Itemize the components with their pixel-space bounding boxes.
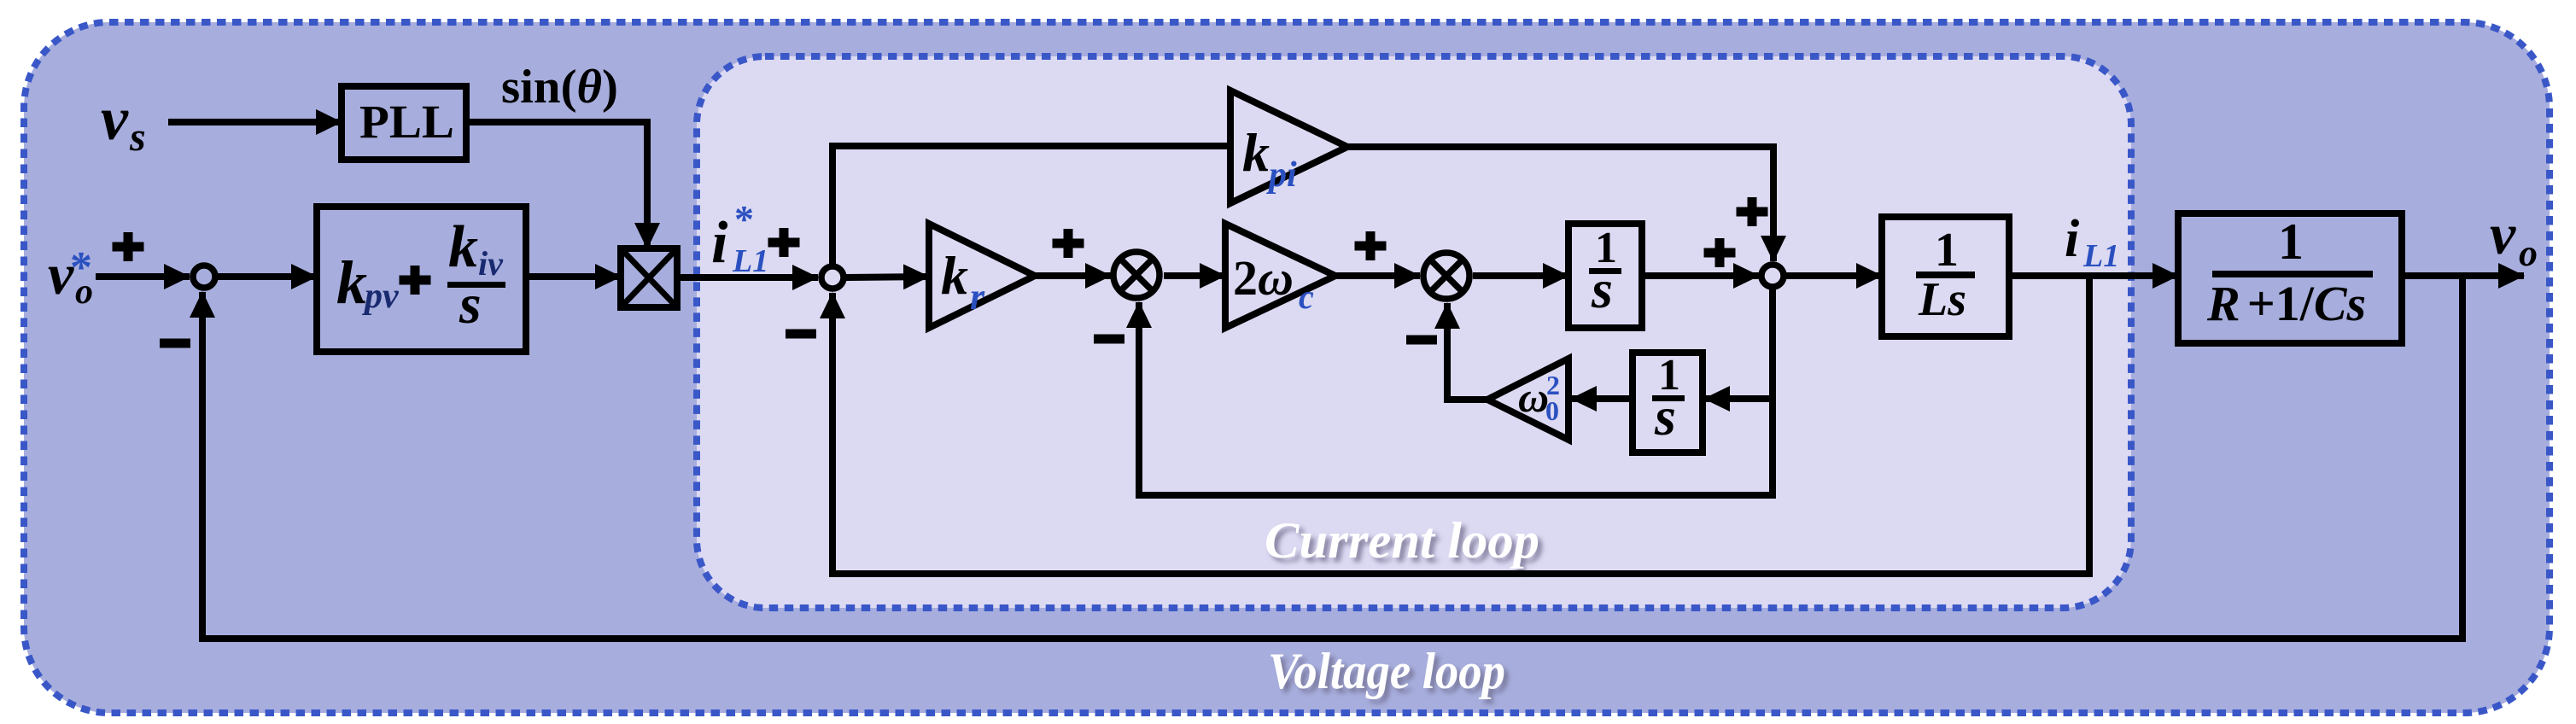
- svg-text:i: i: [2065, 210, 2079, 268]
- svg-text:k: k: [448, 214, 478, 280]
- svg-text:v: v: [2490, 201, 2516, 266]
- svg-text:o: o: [2519, 232, 2538, 274]
- svg-text:L1: L1: [2082, 238, 2119, 274]
- svg-text:ω: ω: [1518, 373, 1549, 421]
- svg-text:2ω: 2ω: [1233, 250, 1294, 306]
- svg-text:R+1/Cs: R+1/Cs: [2206, 276, 2366, 331]
- svg-text:i: i: [711, 210, 728, 276]
- svg-text:k: k: [336, 248, 367, 317]
- svg-text:PLL: PLL: [359, 96, 454, 148]
- svg-text:0: 0: [1545, 395, 1559, 426]
- svg-text:k: k: [1242, 122, 1270, 183]
- svg-text:k: k: [941, 245, 968, 306]
- svg-text:s: s: [1591, 259, 1613, 319]
- svg-text:Voltage loop: Voltage loop: [1268, 643, 1505, 699]
- svg-text:Ls: Ls: [1918, 273, 1966, 326]
- svg-text:iv: iv: [478, 244, 504, 283]
- svg-text:1: 1: [1935, 224, 1959, 277]
- svg-text:s: s: [129, 114, 146, 160]
- svg-text:v: v: [101, 85, 129, 153]
- svg-text:1: 1: [2278, 213, 2304, 270]
- svg-text:c: c: [1299, 277, 1314, 316]
- svg-text:sin(θ): sin(θ): [501, 61, 618, 114]
- svg-text:r: r: [970, 276, 985, 318]
- svg-text:pi: pi: [1266, 155, 1297, 195]
- svg-text:s: s: [1654, 386, 1676, 447]
- svg-text:*: *: [70, 243, 92, 292]
- svg-text:Current loop: Current loop: [1265, 512, 1539, 569]
- svg-text:L1: L1: [732, 243, 768, 279]
- svg-text:pv: pv: [362, 277, 400, 316]
- svg-text:s: s: [459, 273, 482, 336]
- svg-text:*: *: [734, 197, 754, 241]
